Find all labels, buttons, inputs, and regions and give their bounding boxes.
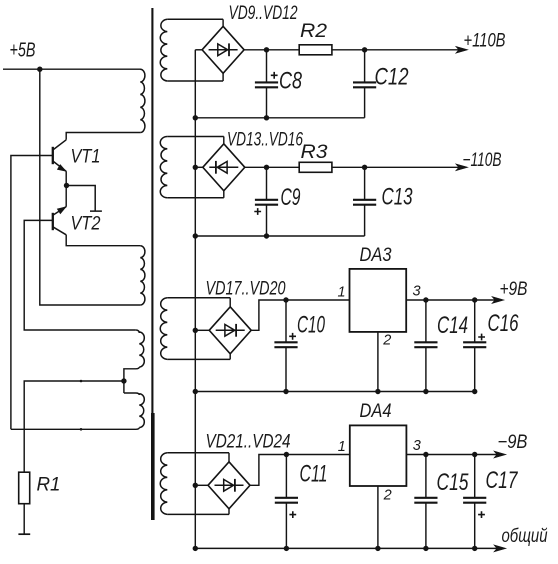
wire S1 top to bridge xyxy=(222,19,224,26)
junction +5В rail xyxy=(37,67,42,72)
winding S4 (secondary 4) xyxy=(167,452,229,454)
transformer core xyxy=(151,8,154,520)
wire bridge3 to rail xyxy=(195,329,209,331)
junction rail-return 3 xyxy=(193,389,198,394)
arrow +9В xyxy=(492,297,504,304)
junction rail bridge2 xyxy=(193,165,198,170)
capacitor C8 xyxy=(255,50,278,118)
resistor R1 xyxy=(19,472,30,504)
svg-text:VD21..VD24: VD21..VD24 xyxy=(206,431,291,452)
svg-text:+5В: +5В xyxy=(10,40,36,62)
junction C10 bottom xyxy=(283,389,288,394)
wire W4 bottom xyxy=(11,428,139,430)
junction C12 top xyxy=(362,47,367,52)
svg-text:С16: С16 xyxy=(488,310,519,337)
wire section2 return xyxy=(195,235,364,237)
junction node A xyxy=(64,183,69,188)
junction C14 bottom xyxy=(423,389,428,394)
junction C11 top xyxy=(284,452,289,457)
capacitor C13 xyxy=(353,167,376,236)
junction C15 bottom xyxy=(423,546,428,551)
transistor VT1 xyxy=(53,140,67,172)
junction C8 top xyxy=(264,47,269,52)
arrow -110В xyxy=(456,164,468,171)
capacitor C17 xyxy=(463,455,486,549)
wire R1 to common terminal xyxy=(23,504,25,534)
wire bridge4 to rail xyxy=(195,484,208,486)
junction C13 top xyxy=(362,165,367,170)
wire common rail bottom xyxy=(195,547,503,549)
wire bridge to rail 2 xyxy=(195,166,203,168)
junction rail-return 2 xyxy=(193,233,198,238)
capacitor C14 xyxy=(414,300,437,392)
wire S4 top to bridge xyxy=(228,453,230,462)
svg-text:+110В: +110В xyxy=(464,31,506,52)
wire node A to VT2 xyxy=(65,186,67,207)
winding S1 (secondary 1) xyxy=(167,18,223,20)
svg-text:−110В: −110В xyxy=(463,150,502,171)
svg-text:С11: С11 xyxy=(300,461,328,488)
junction C15 top xyxy=(423,452,428,457)
svg-text:VT1: VT1 xyxy=(71,146,101,168)
winding W2 (primary drive) xyxy=(140,246,145,305)
resistor R2 xyxy=(299,45,332,55)
svg-text:3: 3 xyxy=(413,284,421,300)
wire DA4 pin2 xyxy=(377,486,379,548)
wire DA4 out -9В xyxy=(406,454,503,456)
svg-text:R1: R1 xyxy=(37,474,61,496)
arrow -9В xyxy=(494,451,506,458)
svg-text:С17: С17 xyxy=(486,467,519,494)
winding W4 (feedback) xyxy=(124,393,139,395)
svg-text:3: 3 xyxy=(413,438,421,454)
junction rail-return 1 xyxy=(193,115,198,120)
svg-text:С12: С12 xyxy=(375,63,409,90)
regulator DA4 xyxy=(350,425,407,486)
wire VT2 base xyxy=(24,220,136,330)
wire +5В to winding W2 bottom xyxy=(40,69,141,305)
resistor R3 xyxy=(299,162,332,172)
svg-text:+9В: +9В xyxy=(500,279,528,300)
wire W1 bottom to VT1 collector xyxy=(66,133,140,140)
junction rail bridge3 xyxy=(193,328,198,333)
svg-text:VT2: VT2 xyxy=(71,213,101,235)
junction rail bridge4 xyxy=(193,483,198,488)
bridge rectifier VD9..VD12 xyxy=(202,26,244,73)
wire VT1 emitter to node A xyxy=(65,171,67,185)
arrow common xyxy=(494,545,506,552)
junction C17 top xyxy=(472,452,477,457)
junction C16 bottom xyxy=(472,389,477,394)
winding W3 (feedback) xyxy=(136,330,140,333)
bridge rectifier VD21..VD24 xyxy=(208,462,250,509)
wire R3 to -110В xyxy=(332,166,465,168)
wire section3 return xyxy=(195,391,474,393)
svg-text:общий: общий xyxy=(502,526,548,547)
wire bridge to S4 bottom xyxy=(228,509,230,515)
capacitor C11 xyxy=(275,455,298,549)
bridge rectifier VD17..VD20 xyxy=(209,307,251,354)
tick on tap wire xyxy=(80,380,83,383)
capacitor C12 xyxy=(353,50,376,118)
capacitor C15 xyxy=(414,455,437,549)
winding S2 (secondary 2) xyxy=(167,136,224,138)
junction DA4 pin2 bottom xyxy=(375,546,380,551)
junction center tap xyxy=(121,378,126,383)
tick on W4 wire xyxy=(80,428,83,431)
svg-text:С9: С9 xyxy=(281,184,301,211)
junction C9 top xyxy=(264,165,269,170)
wire W3 bottom to center tap xyxy=(124,367,139,393)
svg-text:−9В: −9В xyxy=(498,432,528,453)
svg-text:VD13..VD16: VD13..VD16 xyxy=(227,129,303,150)
wire bridge to S1 bottom xyxy=(222,73,224,81)
transistor VT2 xyxy=(53,206,67,235)
terminal under R1 xyxy=(18,533,30,535)
wire bridge plus output xyxy=(244,49,299,51)
wire R2 to +110В xyxy=(332,49,465,51)
wire bridge minus to rail xyxy=(195,49,202,51)
regulator DA3 xyxy=(350,269,407,332)
wire S2 top to bridge xyxy=(223,137,225,144)
wire bridge3 output to DA3 xyxy=(251,300,349,330)
wire section1 return xyxy=(195,117,364,119)
capacitor C10 xyxy=(274,300,297,392)
svg-text:1: 1 xyxy=(338,439,346,455)
junction DA3 pin2 bottom xyxy=(375,389,380,394)
svg-text:С13: С13 xyxy=(382,183,413,210)
wire S3 top to bridge xyxy=(229,298,231,307)
arrow +110В xyxy=(456,46,468,53)
junction rail-return 4 xyxy=(193,546,198,551)
svg-text:1: 1 xyxy=(338,285,346,301)
svg-text:R3: R3 xyxy=(301,141,328,163)
winding S3 (secondary 3) xyxy=(167,297,230,299)
svg-text:VD17..VD20: VD17..VD20 xyxy=(206,279,286,300)
capacitor C9 xyxy=(254,167,278,236)
junction C9 bottom xyxy=(264,233,269,238)
wire DA3 pin2 xyxy=(377,332,379,392)
svg-text:R2: R2 xyxy=(300,20,327,42)
terminal stub at node A xyxy=(67,186,102,212)
wire +5В input xyxy=(3,68,141,70)
wire bridge2 output xyxy=(245,166,299,168)
bridge rectifier VD13..VD16 xyxy=(203,144,245,191)
wire VT1 base xyxy=(11,156,53,430)
svg-text:С10: С10 xyxy=(297,311,325,338)
wire center tap to R1 xyxy=(24,381,124,472)
wire bridge to S3 bottom xyxy=(229,354,231,360)
junction C11 bottom xyxy=(284,546,289,551)
svg-text:2: 2 xyxy=(382,333,391,349)
wire bridge to S2 bottom xyxy=(223,191,225,198)
wire secondary common rail xyxy=(194,50,196,549)
junction C16 top xyxy=(472,297,477,302)
junction C14 top xyxy=(423,297,428,302)
capacitor C16 xyxy=(463,300,486,392)
winding W1 (primary top) xyxy=(140,69,145,132)
svg-text:2: 2 xyxy=(383,487,392,503)
wire bridge4 output to DA4 xyxy=(250,455,350,486)
junction C8 bottom xyxy=(264,115,269,120)
svg-text:С14: С14 xyxy=(437,312,468,339)
svg-text:DA3: DA3 xyxy=(360,244,392,266)
wire DA3 out +9В xyxy=(406,299,501,301)
junction C10 top xyxy=(283,297,288,302)
svg-text:С15: С15 xyxy=(437,469,469,496)
svg-text:DA4: DA4 xyxy=(360,400,392,422)
wire VT2 collector to W2 top xyxy=(66,235,140,246)
svg-text:С8: С8 xyxy=(279,68,302,95)
svg-text:VD9..VD12: VD9..VD12 xyxy=(229,3,298,24)
junction C17 bottom xyxy=(472,546,477,551)
